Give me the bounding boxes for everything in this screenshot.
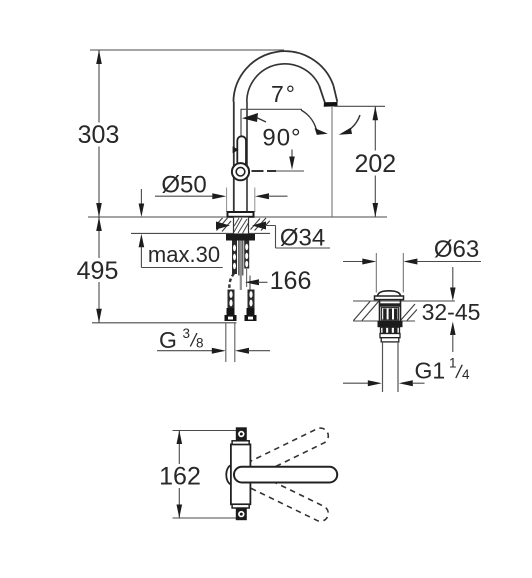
svg-text:32-45: 32-45	[422, 299, 481, 325]
svg-text:G1: G1	[415, 358, 446, 384]
left supply hose upper	[232, 241, 237, 275]
dimension G1 1/4	[343, 356, 470, 387]
right hose connector	[245, 308, 257, 321]
lever pointer arrow	[233, 146, 239, 153]
hose tail tube	[226, 323, 235, 362]
basin slab bottom line	[353, 320, 415, 322]
left hose lower	[228, 290, 235, 309]
annotation 90 degrees	[262, 124, 301, 170]
dimension 303	[78, 50, 120, 217]
bottom band (top view)	[232, 504, 249, 508]
svg-text:166: 166	[270, 267, 312, 295]
dimension 166	[245, 267, 311, 295]
swing arc right	[339, 115, 360, 135]
drain projection lines	[376, 253, 403, 293]
deck bottom line	[131, 232, 270, 234]
drain locknut	[378, 321, 403, 327]
basin slab hatch	[354, 302, 418, 321]
dimension 32-45	[419, 267, 483, 352]
svg-text:4: 4	[462, 367, 470, 382]
svg-text:Ø63: Ø63	[434, 236, 479, 263]
deck hatch left	[217, 218, 232, 232]
dimension 162	[159, 431, 236, 519]
svg-text:202: 202	[354, 150, 396, 178]
dimension G 3/8	[157, 326, 270, 354]
hub centerline dashes	[252, 170, 305, 172]
faucet body left edge	[233, 102, 235, 213]
dimension D34 leader	[216, 222, 330, 252]
deck hatch right	[251, 218, 270, 231]
top band (top view)	[232, 441, 249, 445]
handle hub circle	[232, 163, 249, 180]
deck top line	[88, 216, 387, 218]
dimension D50	[155, 171, 288, 199]
base shoulder left	[226, 188, 228, 213]
basin slab top line	[353, 300, 455, 302]
base flange	[228, 212, 254, 217]
mounting stud	[239, 241, 244, 291]
svg-text:Ø50: Ø50	[161, 171, 206, 198]
svg-text:max.30: max.30	[148, 242, 220, 267]
left hose bend	[229, 274, 234, 291]
spout outlet	[319, 85, 337, 106]
lever handle (upright)	[237, 136, 246, 166]
hub bulge (top view)	[226, 465, 231, 485]
drain castellation	[381, 327, 400, 333]
swing arc left	[301, 110, 328, 135]
solid handle (top view)	[234, 467, 337, 483]
top connector (top view)	[236, 427, 247, 441]
svg-text:303: 303	[78, 121, 120, 149]
dimension 202	[334, 106, 396, 217]
svg-text:495: 495	[77, 257, 119, 285]
drain tailpipe	[383, 342, 399, 392]
outlet projection line	[331, 106, 333, 217]
svg-text:90°: 90°	[262, 124, 301, 151]
locknut	[226, 234, 255, 241]
right supply hose upper	[244, 241, 249, 288]
svg-text:G: G	[159, 327, 177, 353]
drain ring bands	[380, 334, 400, 342]
faucet body right edge	[246, 102, 248, 213]
drain valve body	[380, 300, 401, 321]
drain cap dome	[375, 291, 404, 300]
svg-text:7°: 7°	[271, 81, 297, 107]
svg-text:Ø34: Ø34	[280, 225, 325, 252]
left hose connector	[225, 308, 237, 321]
dashed handle position up	[231, 425, 331, 484]
svg-text:8: 8	[196, 336, 204, 351]
drain dimension D63	[343, 236, 481, 265]
dimension 495	[77, 217, 119, 323]
threaded shank through deck	[234, 217, 249, 234]
dimension max.30	[139, 189, 223, 268]
spout outer arc	[233, 51, 333, 101]
bottom connector (top view)	[236, 508, 247, 520]
body (top view)	[231, 444, 251, 504]
top reference line	[90, 49, 284, 51]
svg-text:162: 162	[159, 463, 201, 491]
annotation 7 degrees	[241, 81, 303, 136]
svg-text:3: 3	[183, 326, 191, 341]
spout inner arc	[247, 64, 319, 102]
svg-text:1: 1	[449, 356, 457, 371]
base shoulder right	[254, 188, 256, 213]
right hose lower	[248, 290, 255, 309]
dashed handle position down	[231, 465, 331, 524]
bottom reference line	[92, 322, 236, 324]
